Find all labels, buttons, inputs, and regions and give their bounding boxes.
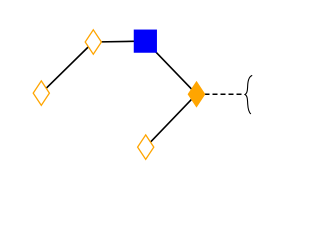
wire S1-D3 [145,41,196,94]
dashed wire D3-bracket [197,93,245,95]
node D2: open orange diamond [33,81,49,105]
node S1: blue square [134,30,157,53]
wire D1-S1 [93,40,145,43]
wire D2-D1 [41,42,93,93]
node D4: open orange diamond [138,135,154,159]
wire D3-D4 [146,94,197,147]
bracket [245,75,252,114]
node D1: open orange diamond [85,30,101,54]
node D3: filled orange diamond [188,82,204,106]
